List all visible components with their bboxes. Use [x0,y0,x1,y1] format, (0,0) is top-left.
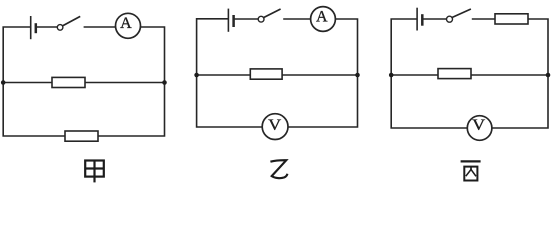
node: left junction of circuit 乙 [194,73,199,78]
battery B3 short plate [421,14,424,26]
wire: outer loop of circuit 丙 (top-left segment, left vertical, bottom, right vertical, top-right segment to resistor R4) [391,19,548,128]
wire: battery B2 to switch S2 [234,18,259,20]
wire: battery B1 to switch S1 [36,26,58,28]
switch S1 lever (open) [63,16,81,26]
switch S2 lever (open) [264,9,281,18]
wire: battery B3 to switch S3 [422,18,446,20]
wire: outer loop of circuit 乙 (top-left segment, left vertical, bottom, right vertical, top-right segment) [197,19,358,127]
node: right junction of circuit 乙 [355,73,360,78]
switch S1 pivot circle [57,25,63,31]
resistor R3 (middle branch) [250,69,282,79]
battery B2 long plate [227,9,229,32]
switch S3 pivot circle [447,16,453,22]
switch S3 lever (open) [452,9,471,18]
resistor R4 (top branch) [495,14,528,24]
ammeter A1 letter A [120,15,132,32]
svg-text:A: A [120,15,132,32]
switch S2 pivot circle [258,16,264,22]
resistor R1 (middle branch) [52,77,85,87]
svg-text:A: A [316,9,328,26]
voltmeter V2 letter V [472,116,486,134]
battery B1 long plate [30,16,32,39]
resistor R5 (middle branch) [438,69,471,79]
ammeter A2 letter A [316,9,328,26]
wire: switch S3 to resistor R4 [472,18,495,20]
svg-text:V: V [268,116,282,134]
label 乙 [270,160,287,178]
node: right junction of circuit 甲 [162,80,167,85]
wire: middle branch of circuit 甲 [3,82,164,84]
svg-text:V: V [472,116,486,134]
node: left junction of circuit 丙 [389,73,394,78]
voltmeter V1 letter V [268,116,282,134]
ammeter A2 circle [311,7,336,32]
resistor R2 (bottom branch) [65,131,98,141]
label 丙 [461,161,481,180]
node: left junction of circuit 甲 [1,80,6,85]
battery B3 long plate [416,8,418,31]
label 甲 [85,161,104,183]
voltmeter V2 circle [467,116,492,141]
wire: middle branch of circuit 乙 [197,74,358,76]
wire: outer loop of circuit 甲 (top-left segment, left vertical, bottom, right vertical, top-right segment) [3,27,164,136]
voltmeter V1 circle [262,114,288,140]
battery B1 short plate [35,23,38,33]
node: right junction of circuit 丙 [546,73,551,78]
battery B2 short plate [232,15,235,27]
ammeter A1 circle [116,13,141,38]
wire: middle branch of circuit 丙 [391,74,548,76]
